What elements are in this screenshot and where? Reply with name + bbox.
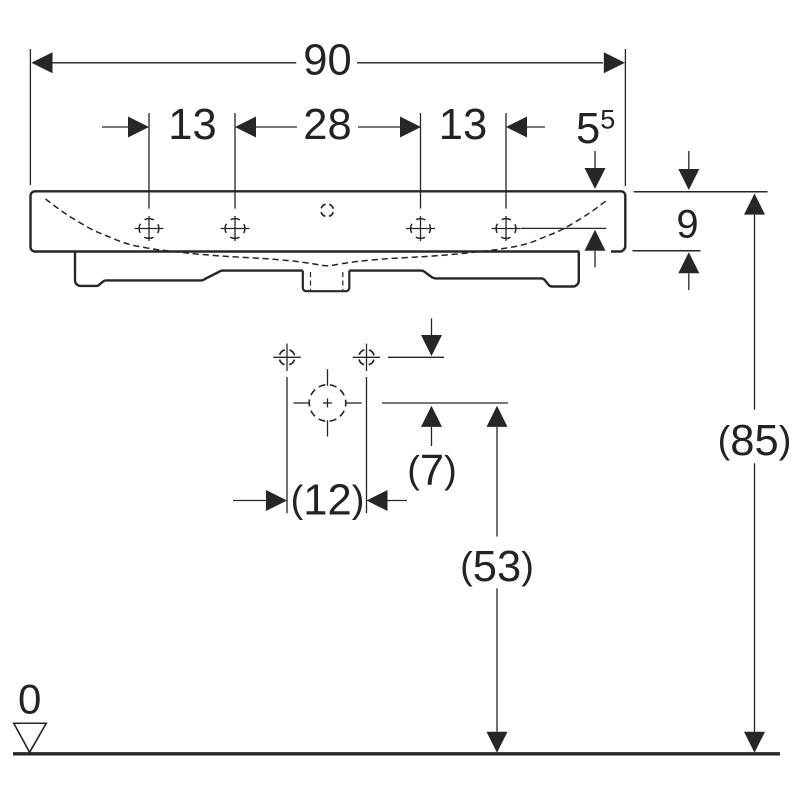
down arrow to small circles row <box>421 319 442 357</box>
svg-text:13: 13 <box>439 101 487 149</box>
extension line tap hole row (right) <box>521 227 607 229</box>
dimension 9 down arrow <box>678 151 699 190</box>
extension line tap hole 2 <box>234 113 236 209</box>
overflow dashed circle <box>321 204 334 217</box>
datum triangle <box>14 723 47 752</box>
extension line left (90) <box>29 49 31 185</box>
extension line from large circle row <box>382 402 508 404</box>
dimension 9 up arrow <box>678 252 699 290</box>
svg-text:28: 28 <box>303 101 351 149</box>
dimension 28 / 13 right shared arrow pointing right <box>358 117 421 138</box>
dimension (12) left arrow <box>233 490 287 511</box>
dimension 90 right arrow <box>604 52 625 73</box>
dimension 13 left: arrow pointing right <box>102 117 149 138</box>
dimension 5.5 down arrow <box>585 151 606 189</box>
tap hole 4 <box>492 216 521 241</box>
extension line right (90) <box>624 49 626 186</box>
dimension (85) line with arrows <box>744 194 765 753</box>
extension line small circle right down <box>366 377 368 513</box>
tap hole 3 <box>406 216 435 241</box>
dimension 13 right arrow pointing left <box>506 117 545 138</box>
dimension 9 top extension line <box>634 191 768 193</box>
dimension (7) up arrow <box>421 406 442 446</box>
svg-text:(53): (53) <box>460 543 534 591</box>
svg-text:0: 0 <box>18 676 41 723</box>
extension line tap hole 3 <box>420 113 422 209</box>
svg-text:(12): (12) <box>291 477 365 525</box>
svg-text:55: 55 <box>576 105 615 154</box>
tap hole 2 <box>221 216 250 241</box>
drain boss inner left line <box>310 272 312 290</box>
dimension (12) right arrow <box>367 490 408 511</box>
drain boss outer <box>303 271 350 292</box>
extension line tap hole 4 <box>505 113 507 209</box>
floor line <box>13 752 780 755</box>
svg-text:90: 90 <box>303 37 351 85</box>
dimension 90 left arrow <box>31 52 52 73</box>
drain detail: small crosshair circle left <box>273 344 300 371</box>
washbasin apron / underside profile <box>75 252 579 287</box>
svg-text:13: 13 <box>168 101 216 149</box>
extension line from small circles row <box>388 356 444 358</box>
tap hole 1 <box>135 216 164 241</box>
dimension 90 line <box>53 62 604 64</box>
svg-text:(85): (85) <box>718 417 792 465</box>
dimension 9 bottom extension line <box>633 250 701 252</box>
drain detail: large dashed circle (siphon) <box>293 369 361 436</box>
washbasin outline <box>31 191 626 251</box>
basin interior dashed curve <box>46 199 609 266</box>
dimension 5.5 up arrow <box>585 230 606 268</box>
drain boss inner right line <box>342 272 344 290</box>
drain detail: small crosshair circle right <box>353 344 380 371</box>
extension line small circle left down <box>286 377 288 513</box>
svg-text:(7): (7) <box>407 447 457 495</box>
dimension (53) line with arrows <box>487 406 508 753</box>
dimension 13 left / 28 shared arrow pointing left <box>235 117 297 138</box>
svg-text:9: 9 <box>676 203 698 247</box>
extension line tap hole 1 <box>148 113 150 209</box>
